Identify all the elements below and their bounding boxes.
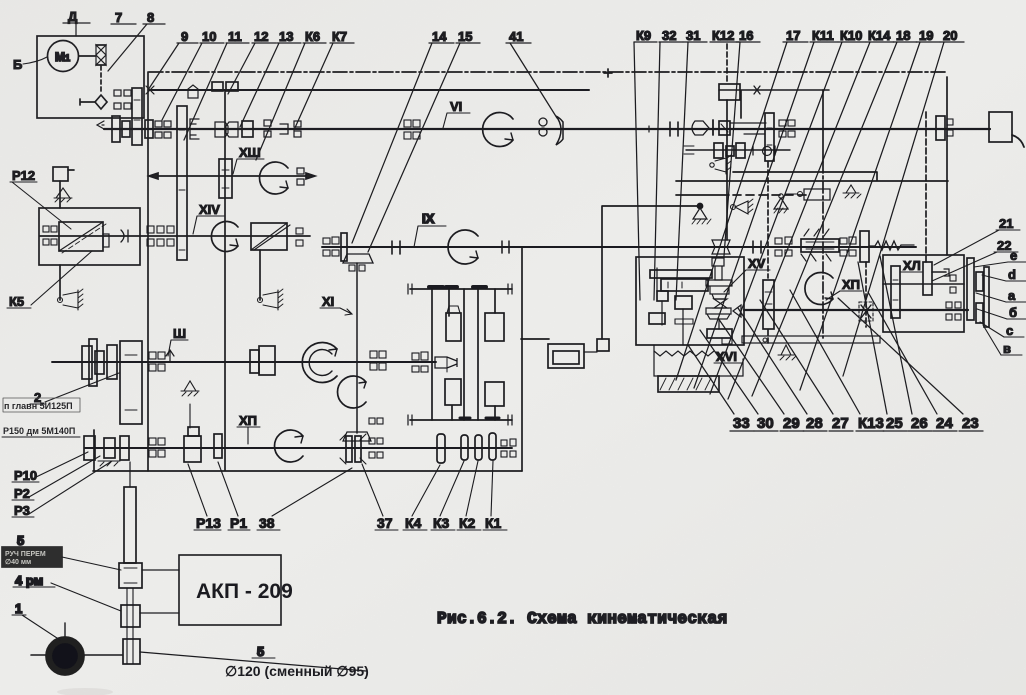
- gear pairs right of III: [370, 351, 377, 358]
- vertical line through feed cluster: [224, 91, 226, 470]
- dashed vertical K12 leader: [726, 44, 728, 84]
- diamond node: [95, 95, 107, 109]
- shaft XIII: [152, 175, 312, 177]
- gearbox housing: [883, 255, 964, 332]
- long change-gear block x178-188: [177, 106, 187, 260]
- rotation arrow shaft XIII: [260, 162, 288, 194]
- shaft XII (lower): [85, 447, 512, 449]
- cross at frame joint: [146, 86, 154, 94]
- gear pair near diamond: [114, 90, 121, 96]
- clutch with cap: [188, 427, 199, 436]
- pinion bevel left end of output shaft: [733, 305, 741, 317]
- handwheel shaft: [31, 654, 122, 656]
- dashed vertical x926: [925, 112, 927, 262]
- support under III: [181, 381, 199, 391]
- belt column upper: [124, 487, 136, 563]
- coupling on IX at feedbox edge: [502, 241, 509, 253]
- gear pairs on VI x405: [404, 120, 411, 127]
- bevel trapezoid: [343, 254, 373, 263]
- shaft III: [52, 361, 436, 363]
- support under rack bar: [778, 345, 794, 355]
- handwheel disc: [46, 637, 84, 675]
- gearbox frame left vertical: [147, 72, 149, 471]
- AKP-209 box: [179, 555, 281, 625]
- small support under square: [54, 188, 72, 198]
- wire: top dash-dot centerline: [149, 71, 947, 73]
- wire pulley1 to AKP: [142, 569, 179, 571]
- belt to chuck line: [140, 652, 366, 671]
- key pentagon on shaft II: [188, 85, 198, 98]
- worm wheel stack: [712, 258, 724, 280]
- worm drive vertical shaft: [726, 100, 728, 240]
- triple gear pairs on XIV: [147, 226, 154, 233]
- left cluster: [84, 436, 95, 460]
- support pivot K5: [58, 298, 63, 303]
- shaft IX (feed shaft): [322, 246, 916, 248]
- vertical hanger x741: [740, 91, 742, 118]
- shaft XIV: [40, 235, 310, 237]
- mid gear 21/22: [923, 262, 932, 295]
- support under bed: [843, 185, 859, 193]
- gear pairs on VI: [155, 121, 162, 127]
- tall gear right of apron: [763, 280, 774, 329]
- vertical x823 solid part: [822, 90, 824, 162]
- dish: [706, 308, 731, 319]
- mid double gear: [250, 350, 259, 373]
- crank box: [675, 296, 692, 309]
- half nut marks: [806, 242, 834, 249]
- clutch K2: [475, 435, 482, 460]
- overload clutch box 2: [251, 223, 287, 250]
- paper grain overlay: [0, 0, 1, 1]
- rack bar: [742, 336, 880, 343]
- shift fork: [435, 357, 457, 368]
- worm on feed shaft: [712, 240, 730, 247]
- solid vertical x947: [946, 77, 948, 255]
- vertical link shaft XI: [356, 263, 358, 433]
- support link to clutch: [189, 404, 191, 428]
- gear on VI x244: [242, 121, 253, 137]
- vertical from clutch2 down to support: [259, 250, 261, 300]
- gear pairs at input: [412, 353, 419, 360]
- gearbox frame bottom: [93, 470, 522, 472]
- rack body: [654, 345, 743, 376]
- gear pairs right: [840, 238, 847, 244]
- rotation arrow shaft XIV: [211, 222, 238, 252]
- blocks on shaft II: [212, 82, 223, 91]
- small square with stub: [53, 167, 68, 181]
- clutch K4: [437, 434, 445, 463]
- bottom gear box: [707, 329, 732, 338]
- clutch K5 outer box: [39, 208, 140, 265]
- small pairs: [950, 275, 956, 281]
- inner shaft: [883, 283, 964, 285]
- coupling on IX: [392, 241, 400, 254]
- damper cylinder on x823 axis: [804, 189, 830, 200]
- upper gear block B: [485, 313, 504, 341]
- wire pulley2 to AKP: [140, 612, 179, 614]
- dashed belt vertical: [100, 66, 102, 94]
- rotation arrow shaft III double: [302, 343, 337, 383]
- wire left of diamond: [80, 99, 95, 105]
- output gear pairs: [501, 440, 507, 446]
- pivot supports above apron: [697, 203, 703, 209]
- belt lines: [127, 588, 133, 664]
- gear block on XIII: [219, 159, 232, 198]
- gear pairs left: [775, 238, 782, 244]
- wire: upper shaft II: [149, 89, 589, 91]
- rotation arrow shaft VI: [483, 113, 513, 147]
- coupling on feed shaft: [753, 241, 761, 253]
- link to frame: [129, 462, 131, 487]
- gear pairs right: [369, 418, 375, 424]
- apron output shaft: [744, 309, 968, 311]
- dashed vertical right joint: [865, 262, 867, 327]
- worm shaft stem: [718, 319, 720, 329]
- wire: upper right shaft segment: [719, 89, 829, 91]
- rotation arrow aux III: [338, 376, 366, 408]
- left tall gear: [891, 266, 900, 318]
- small pair x265: [264, 120, 271, 126]
- gear right of frame: [145, 120, 153, 138]
- bevel pair below: [349, 265, 355, 271]
- clutch K3: [461, 435, 468, 460]
- motor box: [37, 36, 144, 118]
- C-gear on VI: [190, 119, 199, 139]
- idler double circle: [539, 118, 547, 126]
- belt pulley stack on shaft VI: [97, 121, 104, 129]
- gear pairs: [149, 438, 156, 445]
- up arrow marker: [166, 350, 174, 362]
- big wheel 2: [120, 341, 142, 424]
- wire to gear 16: [730, 122, 766, 124]
- lower gear block A: [445, 379, 461, 405]
- handwheel stem: [64, 623, 66, 638]
- spindle end block: [989, 112, 1012, 142]
- rotation arrow shaft IX: [448, 230, 478, 264]
- device box: [548, 344, 584, 368]
- gear pairs left of K5: [43, 226, 49, 232]
- wire to electric device: [521, 206, 700, 339]
- bed line y195: [676, 194, 729, 196]
- joint circle on x768 axis: [763, 147, 772, 156]
- shaft VI (spindle drive): [104, 128, 990, 130]
- vertical from K5 down to support: [59, 265, 61, 300]
- pulley 1: [119, 563, 142, 588]
- small pair x296: [294, 121, 301, 127]
- bevel X node: [714, 299, 727, 308]
- dashed axis x768: [767, 162, 769, 278]
- clutch K5 body with diagonal: [59, 222, 103, 251]
- relay square: [597, 339, 609, 351]
- support pivot clutch2: [258, 298, 263, 303]
- bed top line: [676, 172, 948, 181]
- second wire to gear16: [744, 133, 765, 135]
- rotation arrow leadscrew: [805, 273, 833, 305]
- belt coupling: [121, 230, 128, 242]
- left vertical shaft with knob: [657, 268, 662, 325]
- coupling at 675: [670, 122, 678, 136]
- pulley 2: [121, 605, 140, 627]
- gear pair end of XIII: [297, 168, 304, 174]
- clutch K1: [489, 433, 496, 460]
- pivot support x783: [779, 194, 783, 198]
- tick mark on shaft II right: [754, 86, 760, 94]
- bevel gear vertical plate: [341, 233, 347, 261]
- leadscrew nut: [801, 239, 839, 252]
- top rail: [410, 288, 512, 290]
- friction cone pair right: [692, 121, 709, 135]
- node cross on centerline: [604, 69, 612, 77]
- left gear cluster: [82, 346, 92, 379]
- tall gear block 16: [765, 113, 774, 161]
- gearbox frame left lower vertical: [93, 430, 95, 471]
- dash-dot vertical x823: [822, 162, 824, 338]
- output plate stack: [967, 258, 974, 320]
- rotation arrow shaft XII: [275, 430, 303, 462]
- crescent cone: [556, 116, 563, 145]
- wire motor to pulley: [79, 55, 96, 57]
- upper horizontal bar: [650, 270, 712, 278]
- gear pairs before bevel: [323, 238, 330, 244]
- tall thin gear: [89, 339, 97, 386]
- motor M1: [48, 41, 79, 72]
- pulley bowtie: [96, 45, 106, 65]
- second bar: [661, 279, 708, 291]
- lower bevel on XI shaft: [343, 432, 371, 441]
- double gear x137: [132, 88, 142, 145]
- worm wheel collar: [706, 280, 732, 299]
- ratchet block: [719, 121, 730, 135]
- spring: [869, 241, 914, 250]
- top right spindle gear: [936, 116, 945, 140]
- gearbox frame right vertical: [521, 247, 523, 471]
- apron box: [636, 257, 744, 345]
- gear pairs: [779, 120, 786, 126]
- bottom rail: [410, 419, 512, 421]
- lower gear block B: [485, 382, 504, 406]
- support under reverse shaft: [710, 163, 714, 167]
- gear on feed rod: [860, 231, 869, 262]
- pulley 3: [123, 639, 140, 664]
- verticals: [432, 289, 478, 420]
- upper gear block A: [446, 313, 461, 341]
- universal joint X: [859, 302, 873, 321]
- solenoid block on K12 line: [719, 84, 740, 100]
- reverse sub-shaft: [686, 149, 790, 151]
- rack zigzag: [654, 351, 714, 356]
- bracket x281: [280, 124, 288, 134]
- pair after clutch: [296, 228, 303, 234]
- friction cone pair on VI: [215, 122, 228, 137]
- gear pairs on III: [149, 352, 156, 359]
